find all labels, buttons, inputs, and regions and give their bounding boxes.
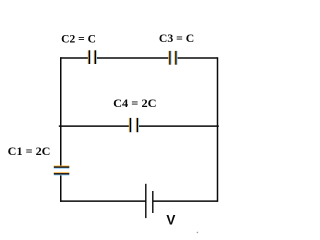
svg-text:C4 = 2C: C4 = 2C	[113, 98, 157, 110]
svg-text:C3 = C: C3 = C	[159, 33, 194, 45]
svg-text:C2 = C: C2 = C	[61, 33, 96, 45]
svg-text:V: V	[166, 213, 176, 229]
svg-text:C1 = 2C: C1 = 2C	[8, 146, 51, 158]
